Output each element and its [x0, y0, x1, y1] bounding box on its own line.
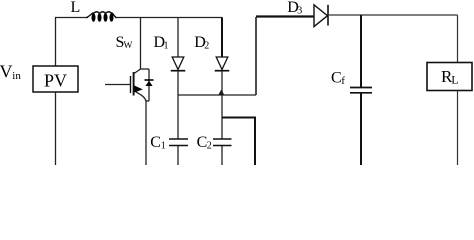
emitter angled lead: [134, 91, 146, 102]
svg-text:L: L: [71, 0, 81, 16]
gate lead: [105, 84, 130, 86]
filled triangle: [145, 81, 152, 86]
antiparallel diode of SW: [141, 69, 154, 101]
PV source box: [33, 66, 78, 92]
wire D1 branch middle: [177, 71, 179, 139]
inductor L: [86, 12, 117, 18]
diode D1: [171, 57, 186, 71]
wire collector drop: [140, 18, 142, 70]
wire RL bottom to edge: [457, 91, 459, 166]
wire emitter down to edge: [145, 100, 147, 165]
wire Cf bottom: [360, 93, 362, 165]
wire D3 anode lead: [256, 15, 314, 17]
svg-text:C: C: [331, 70, 342, 87]
wire top bus right of inductor: [115, 17, 223, 19]
transistor SW (IGBT): [105, 69, 146, 101]
junction arrow at D2 node: [218, 90, 224, 95]
gate bar: [130, 76, 132, 93]
svg-text:W: W: [124, 41, 133, 51]
emitter arrow: [134, 85, 143, 92]
svg-text:V: V: [0, 62, 13, 82]
resistor RL load box: [427, 63, 472, 91]
wire PV bottom to edge: [55, 92, 57, 165]
wire D2 branch top: [221, 18, 223, 58]
cathode bar: [145, 79, 154, 81]
wire junction row node: [178, 94, 256, 96]
wire D2 branch middle: [221, 71, 223, 139]
svg-text:2: 2: [207, 141, 212, 152]
wire output return tap: [222, 118, 255, 166]
wire from top bus down to PV: [55, 18, 57, 67]
svg-text:f: f: [341, 75, 345, 87]
wire D3 cathode to RL corner: [328, 14, 458, 16]
wire top right corner down to RL: [457, 15, 459, 63]
svg-text:in: in: [12, 70, 21, 82]
svg-text:PV: PV: [44, 71, 67, 91]
diode D2: [215, 57, 230, 71]
wire Cf branch top: [360, 15, 362, 87]
svg-text:C: C: [150, 134, 161, 151]
wire C2 bottom: [221, 146, 223, 166]
svg-text:1: 1: [161, 141, 166, 152]
body bar: [133, 72, 135, 96]
svg-text:1: 1: [164, 41, 169, 52]
capacitor C2: [213, 139, 232, 146]
svg-text:3: 3: [297, 6, 302, 17]
capacitor Cf: [350, 88, 372, 93]
wire top bus left segment: [55, 17, 88, 19]
wire C1 bottom: [177, 146, 179, 166]
diode branch wire: [148, 69, 150, 101]
svg-text:L: L: [451, 73, 458, 87]
stub top: [141, 68, 150, 70]
capacitor C1: [169, 139, 188, 146]
collector angled lead: [134, 69, 141, 74]
svg-text:C: C: [197, 134, 208, 151]
wire from D3 bus down to junction row: [255, 17, 257, 95]
svg-text:2: 2: [204, 41, 209, 52]
wire D1 branch top: [177, 18, 179, 58]
diode D3: [314, 5, 328, 27]
stub bottom: [146, 100, 149, 102]
